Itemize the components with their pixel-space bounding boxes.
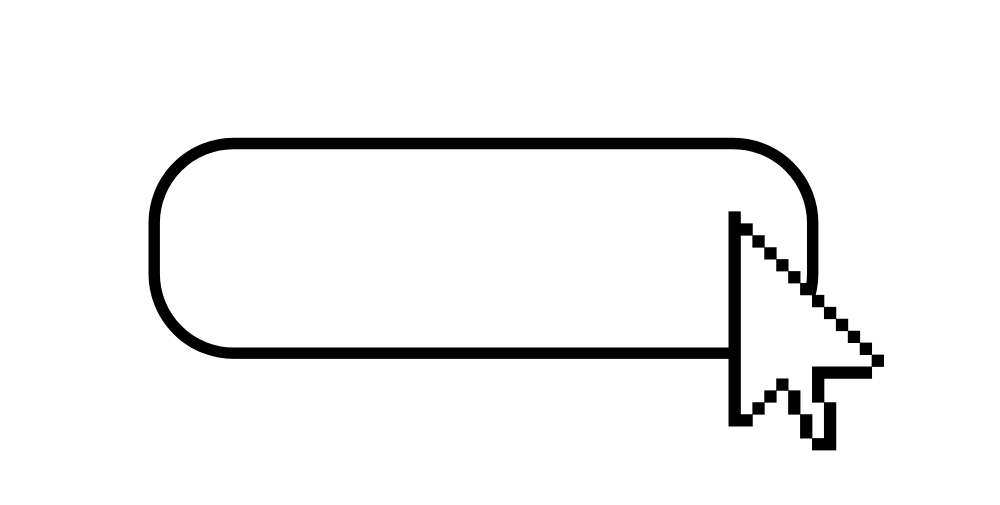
rounded rectangle outline (button / speech bubble) bbox=[154, 144, 813, 354]
cursor bbox=[729, 211, 884, 450]
cursor white fill (occludes rectangle stroke behind pointer) bbox=[729, 212, 884, 451]
cursor black pixel outline bbox=[729, 211, 884, 450]
